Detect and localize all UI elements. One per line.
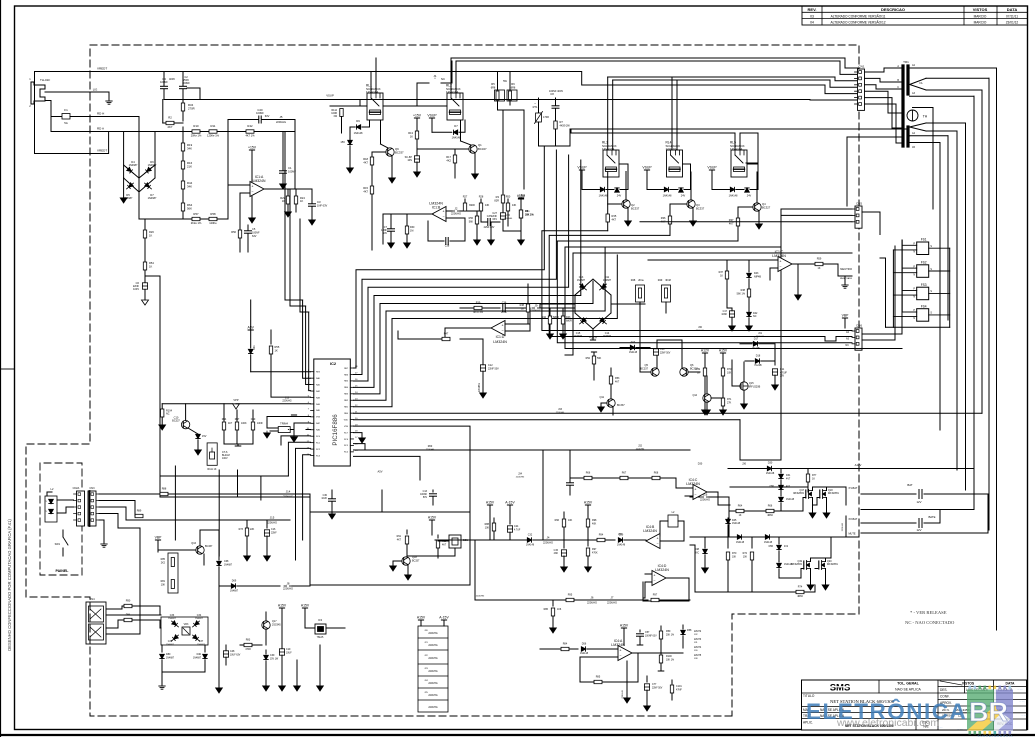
wire VSUP top — [187, 88, 200, 100]
svg-text:BATE: BATE — [928, 515, 935, 519]
svg-text:1N4687: 1N4687 — [224, 565, 233, 567]
svg-text:1N4148: 1N4148 — [766, 472, 775, 475]
wire J1 to bus61 — [451, 61, 453, 83]
svg-text:R84: R84 — [222, 418, 227, 421]
svg-text:220UHG: 220UHG — [700, 498, 710, 502]
ground IC1C plus — [793, 264, 798, 294]
svg-text:24V: 24V — [617, 195, 622, 198]
RL2 coil diode D7 — [459, 120, 465, 132]
jumper block table — [418, 626, 448, 712]
svg-text:21K: 21K — [187, 165, 192, 169]
svg-text:10K: 10K — [485, 527, 490, 530]
bridge diodes in box — [170, 620, 179, 629]
measure line R10 R11 — [139, 131, 192, 133]
svg-text:4K7e 1%: 4K7e 1% — [473, 311, 484, 314]
wire cap join — [164, 99, 200, 101]
svg-text:C: C — [897, 86, 899, 89]
svg-text:R96: R96 — [555, 519, 560, 522]
svg-text:C37: C37 — [199, 640, 204, 643]
svg-text:220UHG: 220UHG — [428, 657, 437, 660]
svg-text:22NF 50V: 22NF 50V — [652, 688, 663, 690]
svg-text:TH: TH — [923, 115, 928, 119]
svg-text:6R8: 6R8 — [491, 87, 496, 90]
svg-text:1N4148: 1N4148 — [526, 545, 535, 547]
cap C7 10NF 50V — [390, 214, 392, 228]
svg-text:A12V: A12V — [855, 463, 862, 467]
IC4:A output — [632, 652, 683, 654]
resistor R94 1K — [597, 538, 605, 541]
resistor C101 — [671, 680, 673, 684]
svg-text:1N4687: 1N4687 — [603, 336, 612, 338]
power resistors R5 R6 5W — [495, 90, 505, 101]
svg-text:~ ~~: ~ ~~ — [947, 716, 953, 719]
wires transistor tops — [656, 340, 658, 368]
svg-text:63V: 63V — [493, 218, 498, 221]
svg-text:2K4e: 2K4e — [638, 279, 644, 282]
svg-text:BC337: BC337 — [640, 368, 648, 371]
svg-text:BAT: BAT — [907, 483, 913, 487]
bridge left wire — [540, 303, 575, 305]
svg-text:220UHG: 220UHG — [428, 644, 437, 647]
cap C36 — [502, 305, 504, 312]
vertical x219 low to ground — [218, 586, 220, 688]
source loop y592 with R74 — [728, 591, 796, 593]
svg-text:BC337: BC337 — [205, 545, 213, 548]
svg-text:C24: C24 — [514, 525, 519, 528]
svg-text:2SC945: 2SC945 — [272, 624, 281, 627]
IC1:D inputs right — [505, 323, 530, 325]
cap C24 — [507, 526, 512, 532]
svg-text:220UHG: 220UHG — [756, 336, 765, 338]
svg-text:10K: 10K — [743, 557, 748, 559]
svg-text:CN3: CN3 — [89, 487, 95, 490]
svg-text:+: + — [653, 574, 655, 578]
svg-text:1K: 1K — [812, 478, 815, 481]
svg-text:D80: D80 — [166, 653, 171, 656]
svg-text:4K7: 4K7 — [397, 539, 402, 542]
vertical x470 to alarm box — [469, 450, 471, 512]
svg-text:1K: 1K — [739, 515, 742, 517]
svg-text:Q19: Q19 — [797, 560, 802, 563]
svg-text:10NF: 10NF — [721, 314, 727, 316]
wire gates upper — [803, 497, 806, 499]
svg-text:DATA: DATA — [1007, 7, 1018, 12]
svg-text:10K: 10K — [568, 519, 573, 522]
cap C16 22NF 50V box — [653, 349, 658, 355]
IC2 staircase to top buses — [354, 146, 545, 368]
svg-text:100NF 63V: 100NF 63V — [645, 636, 657, 638]
watermark logo chip — [967, 686, 1013, 735]
resistor R45 output — [430, 328, 445, 339]
secondary pin y96 — [910, 95, 974, 97]
svg-text:BC337: BC337 — [696, 207, 705, 211]
wire IC1C to bus — [727, 307, 732, 309]
svg-text:J2: J2 — [455, 206, 458, 210]
svg-text:20K 1%: 20K 1% — [666, 635, 674, 637]
wires to pins 2-4 from above — [303, 300, 311, 378]
IC2 PIC16F886 box — [314, 359, 351, 466]
battery cell 2 — [861, 522, 916, 524]
svg-text:10K: 10K — [161, 584, 166, 587]
bus y450 long — [354, 449, 691, 451]
svg-text:VPP: VPP — [233, 398, 238, 402]
svg-text:": " — [937, 697, 938, 701]
svg-text:4K7: 4K7 — [228, 422, 233, 425]
svg-text:VSUP: VSUP — [642, 166, 652, 170]
svg-text:1N4148: 1N4148 — [354, 132, 363, 135]
resistor R86 1K6 — [552, 600, 554, 606]
svg-text:R59: R59 — [817, 258, 822, 261]
svg-text:R35: R35 — [612, 214, 617, 218]
TH wire — [913, 108, 934, 210]
svg-text:120Ke 1%: 120Ke 1% — [207, 134, 220, 138]
connector CN3 panel — [88, 491, 96, 526]
wire RL1-RL2 contacts — [383, 105, 447, 107]
svg-text:J7: J7 — [611, 595, 614, 599]
svg-text:1K: 1K — [410, 135, 413, 139]
svg-text:D11: D11 — [605, 276, 610, 279]
IC1:B feedback loop — [446, 218, 465, 241]
svg-text:D45: D45 — [732, 519, 737, 522]
mosfet Q17 — [805, 490, 807, 498]
svg-text:R95: R95 — [568, 594, 573, 597]
svg-text:D41: D41 — [253, 345, 256, 350]
secondary pin y135.8 — [910, 135, 948, 137]
svg-text:A15V: A15V — [719, 349, 728, 353]
svg-text:A5V: A5V — [247, 326, 254, 330]
staircase jog bus2 — [549, 337, 852, 342]
svg-text:Q3: Q3 — [696, 203, 700, 207]
svg-text:IC2: IC2 — [330, 361, 337, 366]
svg-text:C34: C34 — [197, 614, 202, 617]
svg-text:C19: C19 — [286, 648, 291, 651]
svg-text:1N4687: 1N4687 — [195, 618, 203, 620]
IC2 right pins — [350, 367, 353, 369]
svg-text:15V: 15V — [202, 435, 207, 438]
svg-text:LIG: LIG — [93, 88, 98, 92]
svg-text:IRF3205%: IRF3205% — [827, 564, 838, 566]
jumper J9 — [532, 307, 535, 309]
diode D40 below box — [204, 645, 206, 652]
svg-text:TOL. GERAL: TOL. GERAL — [897, 682, 920, 686]
svg-text:CONF.: CONF. — [940, 695, 950, 699]
wire q16 collector up — [199, 530, 201, 546]
wire plug pin1 to earth — [45, 92, 109, 100]
svg-text:Q11: Q11 — [599, 396, 604, 399]
diodes D17 D18 HL24B — [740, 343, 752, 345]
svg-text:220UHG: 220UHG — [607, 601, 617, 605]
svg-text:A15V: A15V — [301, 604, 310, 608]
wire y520 jumper — [268, 519, 271, 521]
transformer TR1 secondary bar lower — [906, 127, 909, 146]
zener D50 4V2 col — [780, 480, 782, 484]
svg-text:R74: R74 — [798, 586, 803, 589]
svg-text:56K: 56K — [469, 221, 474, 224]
resistor R2 2K7 — [162, 100, 164, 124]
staircase wire 3 — [557, 241, 852, 343]
svg-text:ALTERADO CONFORME VERSÃO/12: ALTERADO CONFORME VERSÃO/12 — [830, 20, 885, 25]
svg-text:R60: R60 — [428, 445, 433, 448]
resistor R84 4K7 pin row — [223, 404, 225, 421]
svg-text:1N4148: 1N4148 — [452, 137, 461, 140]
svg-text:~ ~~: ~ ~~ — [957, 728, 963, 731]
svg-text:J32: J32 — [638, 445, 643, 448]
svg-text:R84: R84 — [563, 643, 568, 646]
svg-text:+12V: +12V — [589, 336, 598, 340]
staircase inner wires — [354, 248, 606, 400]
svg-text:R26: R26 — [149, 230, 154, 234]
resistor R52 56K — [593, 352, 595, 356]
svg-text:R52: R52 — [586, 357, 591, 360]
svg-text:MARCIO: MARCIO — [974, 21, 987, 25]
svg-text:07/11/11: 07/11/11 — [1006, 14, 1018, 18]
connector CN6 — [855, 328, 862, 350]
svg-text:1K6: 1K6 — [557, 608, 562, 611]
svg-text:12V=10A: 12V=10A — [366, 90, 378, 94]
PAINEL dashed box — [40, 463, 82, 575]
svg-text:R13: R13 — [408, 131, 413, 135]
svg-text:56K: 56K — [187, 207, 192, 211]
svg-text:C5: C5 — [252, 227, 256, 231]
wires CN5 right — [862, 211, 880, 213]
svg-text:VSUP: VSUP — [707, 166, 717, 170]
RL5 drive circuit — [709, 169, 714, 171]
svg-text:CN5: CN5 — [856, 202, 862, 206]
svg-text:A-15V: A-15V — [505, 501, 515, 505]
svg-text:20Ke 1%: 20Ke 1% — [191, 134, 202, 138]
diode D46 1N4148 col — [779, 497, 783, 501]
svg-text:C30: C30 — [251, 418, 256, 421]
resistor R72 10K — [751, 537, 753, 548]
svg-text:680R: 680R — [553, 316, 559, 319]
mains cap C8 100NF 400V — [555, 98, 557, 105]
resistor R87 100K — [236, 410, 238, 421]
resistor R104 NC — [161, 404, 163, 409]
svg-text:4R66: 4R66 — [767, 515, 773, 517]
svg-text:R49: R49 — [658, 279, 663, 282]
wire y494 to cap C30 — [309, 494, 311, 500]
svg-text:IRFU220B: IRFU220B — [749, 386, 761, 389]
resistor R16 — [181, 161, 184, 169]
svg-text:1N4148: 1N4148 — [736, 542, 745, 544]
resistor R70 10K — [727, 537, 729, 548]
diode D30 on y468 — [727, 468, 729, 470]
svg-text:10K: 10K — [732, 557, 737, 559]
svg-text:220UHG: 220UHG — [276, 120, 286, 124]
relay L1 — [367, 93, 383, 120]
svg-text:Q6: Q6 — [690, 363, 694, 367]
staircase wire 4 — [565, 247, 902, 349]
resistor R49 3K48 — [662, 285, 671, 302]
diode D45 1N4148 — [727, 518, 729, 519]
svg-text:4K7: 4K7 — [615, 381, 620, 384]
svg-text:1K: 1K — [149, 265, 152, 269]
transistor Q18 — [402, 557, 410, 565]
svg-text:LM324N: LM324N — [686, 482, 700, 486]
svg-text:C15: C15 — [576, 332, 581, 335]
ground Q11 — [601, 403, 607, 407]
resistor R83 470R — [240, 644, 244, 646]
cap at 570 — [569, 478, 571, 482]
svg-text:J34: J34 — [518, 473, 523, 476]
RL5 top pins — [734, 133, 736, 150]
svg-text:220UHG: 220UHG — [428, 694, 437, 697]
resistor box R85 2K2 — [168, 553, 178, 593]
battery cell 1 — [861, 493, 916, 495]
svg-text:R58: R58 — [210, 212, 216, 216]
svg-text:~ ~~: ~ ~~ — [952, 686, 958, 689]
svg-text:Q14: Q14 — [692, 394, 697, 397]
svg-text:R85: R85 — [596, 676, 601, 679]
svg-text:4.7UF: 4.7UF — [514, 530, 521, 532]
main bus y537 — [690, 536, 859, 538]
svg-text:+: + — [779, 260, 781, 264]
vertical x543 mid down — [542, 450, 544, 540]
svg-text:270R: 270R — [188, 107, 195, 111]
resistor R90b — [437, 535, 439, 538]
svg-text:D9: D9 — [356, 119, 360, 123]
svg-text:C48: C48 — [230, 650, 235, 653]
svg-text:2K7: 2K7 — [168, 125, 173, 129]
svg-text:LM324N: LM324N — [772, 254, 786, 258]
cap C30 10NF — [252, 410, 254, 421]
svg-text:R5: R5 — [491, 82, 495, 86]
wire gates lower — [801, 568, 804, 570]
resistor R44 — [181, 181, 184, 189]
svg-text:−: − — [443, 215, 445, 219]
transistor Q16 BC337 — [196, 546, 204, 554]
wire pin11 — [287, 429, 289, 431]
relay L4 — [667, 150, 683, 177]
R23 R24 dividers — [287, 189, 289, 196]
earth under D80 — [159, 685, 165, 687]
resistor R27 390R — [464, 199, 466, 203]
mains plug TH-01F — [31, 82, 45, 104]
svg-text:NAO SE APLICA: NAO SE APLICA — [895, 688, 921, 692]
svg-text:1N4148: 1N4148 — [629, 352, 638, 354]
resistor R91 — [406, 530, 408, 534]
svg-text:1M: 1M — [410, 230, 413, 233]
mosfet Q15 IRFU220 — [740, 382, 748, 390]
svg-text:R55: R55 — [275, 345, 280, 349]
long vertical x155 — [145, 276, 160, 490]
svg-text:C17: C17 — [723, 310, 728, 313]
zener D56 4V2 lower — [778, 537, 780, 544]
svg-text:220UHG: 220UHG — [282, 400, 291, 403]
long vertical x305 — [294, 120, 296, 132]
resonator TRIM4 — [278, 427, 290, 433]
jumper J14 on y494 — [284, 493, 287, 495]
RL4 top pins — [671, 77, 673, 150]
wire x160 bottom to y497 — [159, 490, 161, 497]
op-amp IC4:C — [693, 485, 707, 500]
svg-text:A-15V: A-15V — [439, 616, 449, 620]
svg-text:100NF: 100NF — [256, 111, 264, 115]
svg-text:10UF: 10UF — [286, 653, 292, 655]
svg-text:220UHG: 220UHG — [267, 521, 277, 525]
diode D47 on bus — [737, 535, 741, 539]
svg-text:ELETRÔNICA: ELETRÔNICA — [806, 699, 967, 724]
svg-text:+: + — [251, 185, 253, 189]
svg-text:+15V: +15V — [517, 195, 526, 199]
resistor R64 1K — [736, 509, 744, 512]
IC1:D minus divider — [527, 288, 529, 324]
feedback loop C20 — [228, 120, 258, 186]
bus y133 into RL5 — [571, 129, 735, 133]
ground arrow bridge — [123, 178, 125, 198]
svg-text:IC1:D: IC1:D — [496, 335, 505, 339]
svg-text:1N4148: 1N4148 — [764, 542, 773, 544]
svg-text:10N: 10N — [407, 159, 412, 162]
wire fuse to node — [70, 116, 139, 118]
jumper J16 — [690, 496, 700, 498]
zener D8 — [349, 133, 351, 140]
bus y427 from pin — [354, 426, 471, 450]
cap C48 10UF 63V — [225, 645, 227, 650]
bus y512 to right — [310, 511, 382, 513]
ground under C37 — [490, 222, 492, 240]
cap C77 22NF 50V — [646, 676, 648, 682]
jumper J4 — [544, 539, 547, 541]
supply A15V stubs bottom-left — [279, 607, 284, 609]
svg-text:1N4687: 1N4687 — [148, 164, 157, 167]
resistor R77 — [807, 469, 809, 474]
IC1:D output left — [445, 327, 491, 329]
svg-text:−: − — [653, 579, 655, 583]
resistor R55 1K — [270, 330, 272, 344]
crystal box CT6 — [207, 443, 217, 465]
jumper J5 — [277, 119, 280, 121]
wire plug left down — [34, 72, 36, 154]
svg-text:N: N — [913, 317, 915, 320]
svg-text:VBP: VBP — [842, 314, 850, 318]
svg-text:12V: 12V — [917, 500, 922, 504]
svg-text:10K: 10K — [727, 372, 732, 375]
RL4 drive circuit — [644, 169, 649, 171]
resistor R56b under minus — [476, 211, 478, 216]
bus y77 y80 to right — [608, 77, 858, 81]
wire R5R6 top — [497, 72, 499, 91]
svg-text:FS3: FS3 — [921, 283, 927, 287]
IC2 left pins — [311, 371, 314, 373]
connector CN4 optos — [86, 602, 106, 644]
diode D13 1N4148 — [620, 347, 630, 349]
drain wire to P1.BAT — [812, 487, 814, 491]
fuse box FS2 — [917, 265, 929, 278]
svg-text:−: − — [251, 190, 253, 194]
transformer TR1 secondary bar upper — [906, 66, 909, 94]
RL3 top pins — [607, 77, 609, 150]
svg-text:43K: 43K — [512, 204, 517, 207]
vertical x740 from y420 bus — [740, 420, 781, 460]
svg-text:1N4687: 1N4687 — [574, 336, 583, 338]
jumper J1 NC — [416, 83, 418, 106]
thermal switch TH — [907, 110, 918, 121]
svg-text:120Ke: 120Ke — [209, 221, 217, 225]
svg-text:12V=10A: 12V=10A — [730, 147, 742, 151]
varistor VR3 center — [182, 627, 190, 635]
left wire loop — [690, 545, 728, 592]
RL1 coil circuit — [362, 120, 370, 127]
IC1:C output resistor R59 1K — [792, 263, 815, 265]
svg-text:Q17: Q17 — [799, 489, 804, 492]
svg-text:R86: R86 — [544, 608, 549, 611]
svg-text:R67: R67 — [622, 472, 627, 475]
diode bridge D4-D7 — [124, 132, 139, 179]
svg-text:R66: R66 — [768, 505, 773, 508]
svg-text:R36: R36 — [661, 216, 666, 220]
cap C10 10NF — [414, 156, 419, 162]
